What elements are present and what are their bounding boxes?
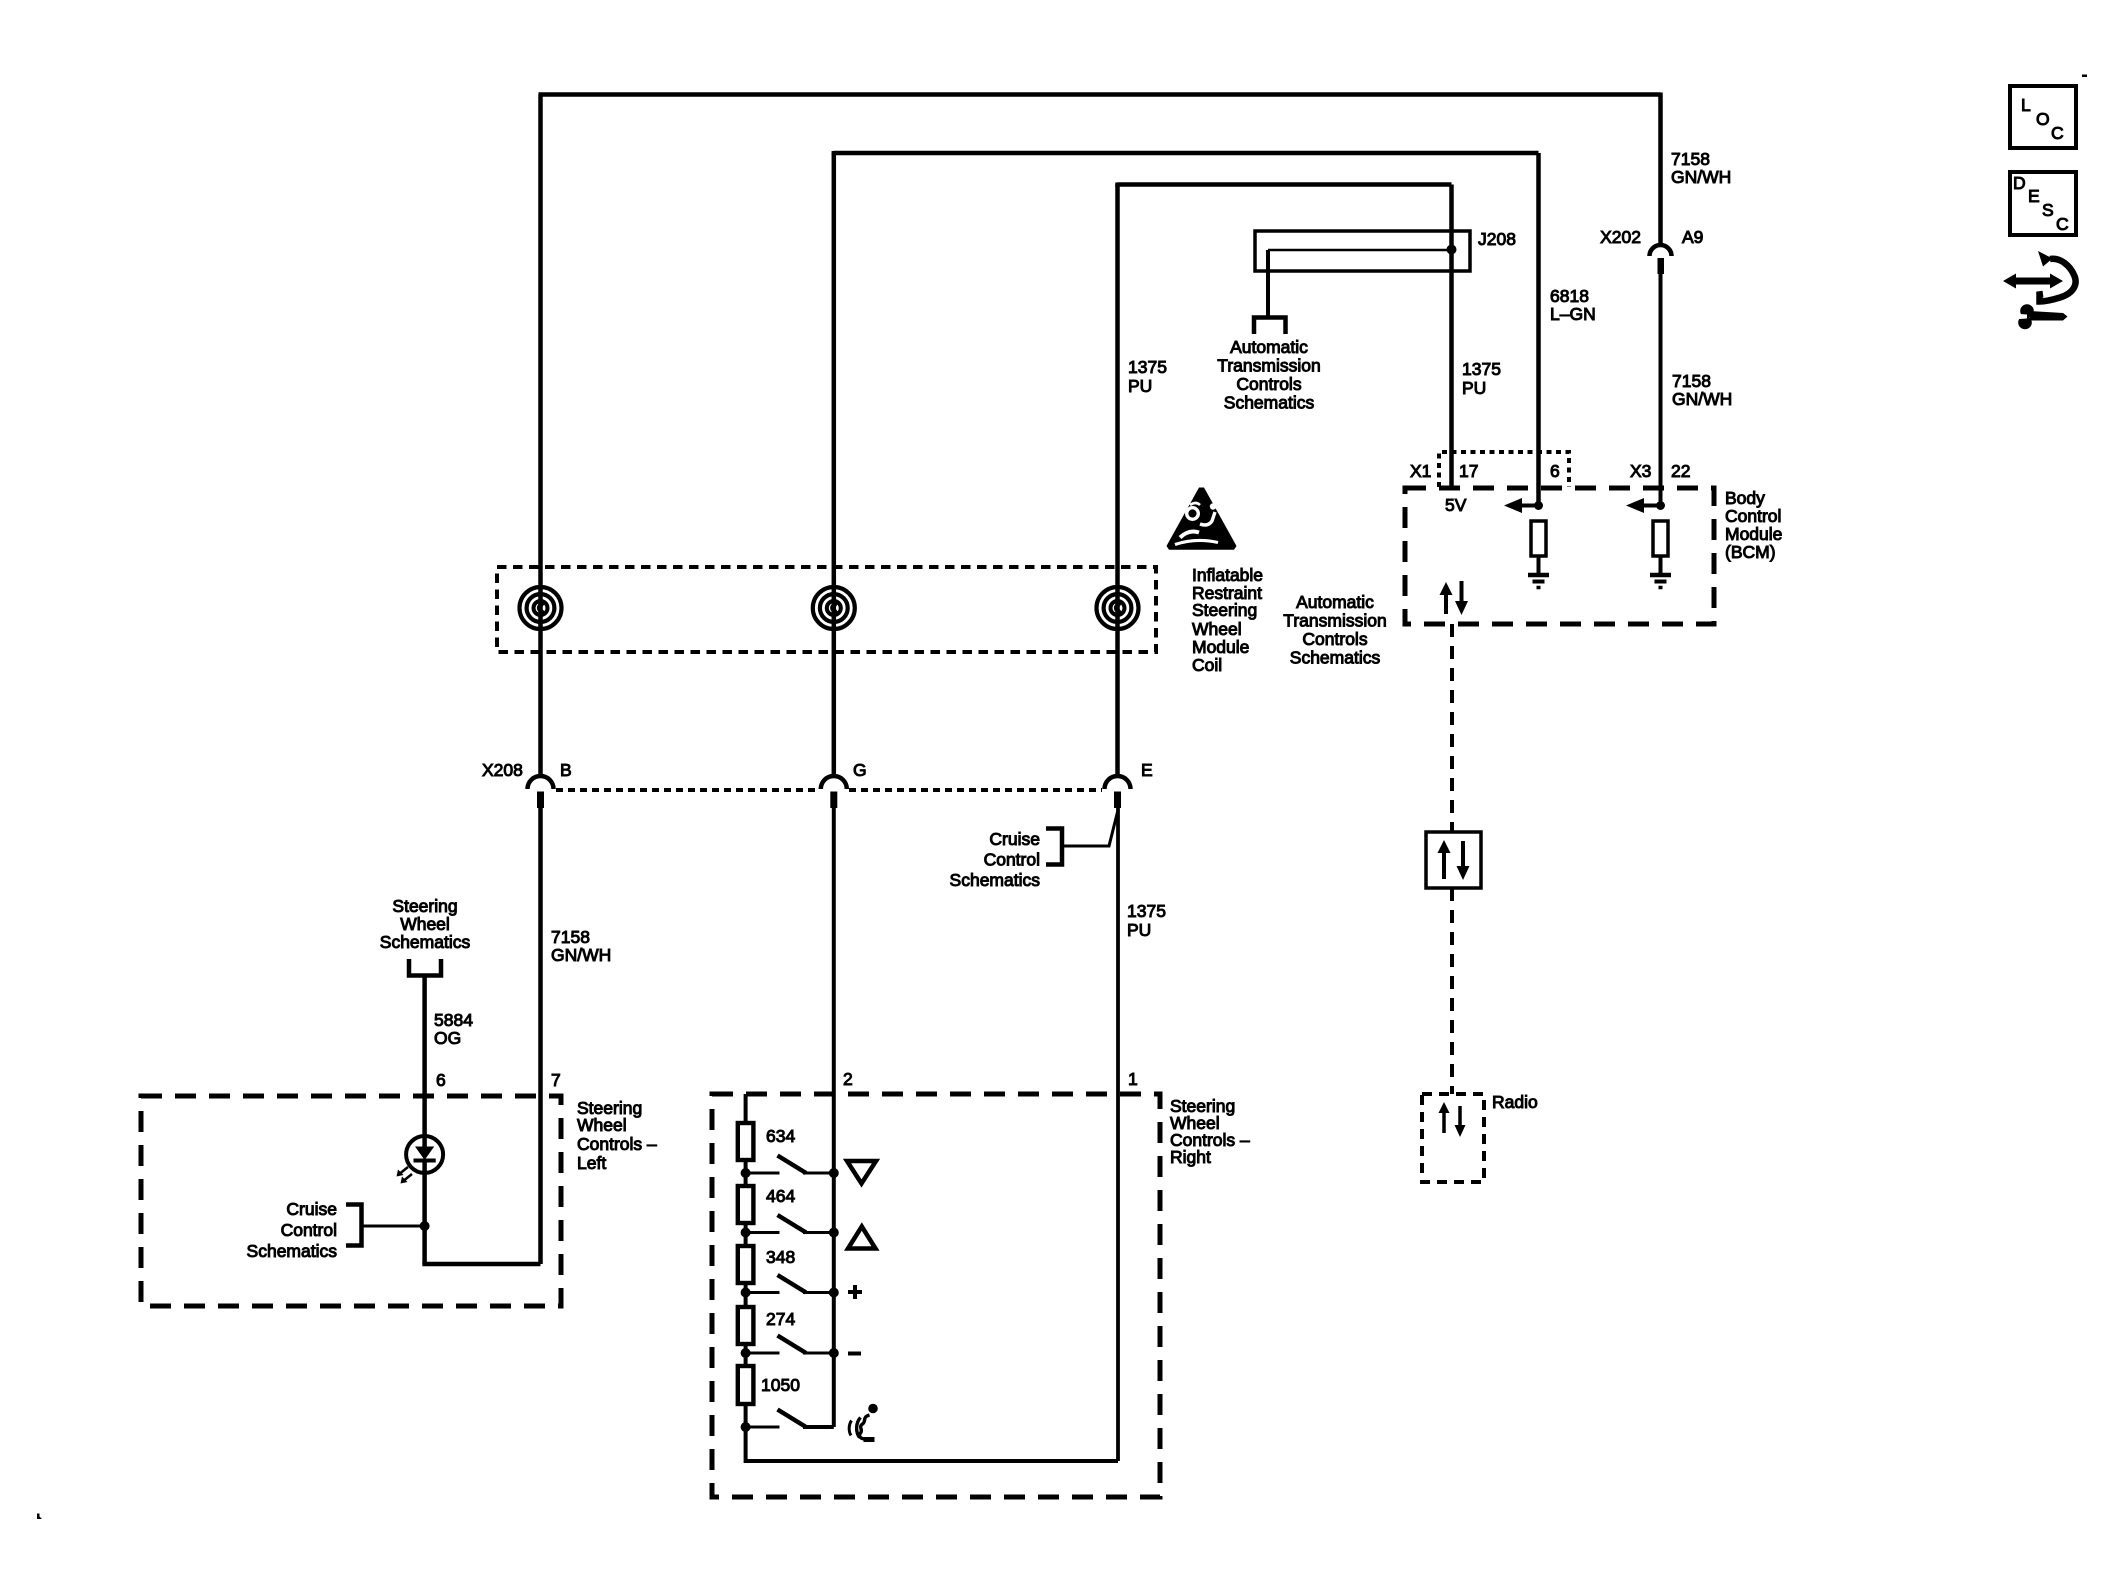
bracket Cruise Control (left) [346, 1205, 362, 1246]
svg-text:Control: Control [984, 850, 1040, 870]
wire E lower vertical to pin 1 [1116, 806, 1120, 1461]
switch S5 (voice) [746, 1426, 780, 1429]
svg-text:GN/WH: GN/WH [1671, 167, 1731, 187]
junction dot row1 right [829, 1168, 839, 1178]
wire B upper vertical (6818) [832, 153, 837, 778]
off-page connector bracket (Automatic Transmission) [1254, 318, 1286, 335]
svg-text:Schematics: Schematics [1224, 393, 1315, 413]
junction dot on J208 bus [1447, 245, 1457, 255]
wire W1 right vertical to X202 [1658, 93, 1663, 245]
module BCM dashed box [1405, 488, 1714, 624]
svg-text:L–GN: L–GN [1550, 304, 1596, 324]
svg-text:Wheel: Wheel [400, 914, 450, 934]
wire 5884 vertical [422, 976, 427, 1149]
svg-text:Schematics: Schematics [1290, 648, 1381, 668]
dotted harness line X208 (B to G) [556, 788, 818, 792]
svg-text:1375: 1375 [1128, 357, 1167, 377]
dotted harness line X208 (G to E) [849, 788, 1102, 792]
svg-text:X1: X1 [1410, 461, 1431, 481]
svg-text:Left: Left [577, 1153, 606, 1173]
serial data node box [1426, 832, 1481, 888]
svg-text:Controls: Controls [1302, 629, 1367, 649]
svg-text:Module: Module [1725, 524, 1782, 544]
junction dot pin 22 [1656, 501, 1665, 510]
wire W3 right vertical through J208 to BCM pin 17 [1449, 185, 1454, 489]
icon double arrow [2014, 278, 2052, 285]
connector X208 E arc [1105, 776, 1131, 789]
svg-text:L: L [2021, 95, 2031, 115]
svg-text:2: 2 [843, 1069, 853, 1089]
junction dot row4 right [829, 1348, 839, 1358]
junction dot pin 6 [1534, 501, 1543, 510]
svg-text:Schematics: Schematics [380, 932, 471, 952]
svg-text:348: 348 [766, 1247, 795, 1267]
stray mark bottom left [37, 1514, 42, 1520]
svg-text:Schematics: Schematics [247, 1241, 338, 1261]
symbol plus [853, 1285, 857, 1299]
LED D1 circle [406, 1136, 443, 1173]
wire A upper vertical (7158) [538, 95, 543, 779]
svg-text:PU: PU [1127, 920, 1151, 940]
connector X208 B tick [537, 792, 544, 809]
coil spiral 2 [813, 587, 855, 629]
signal arrow at pin 22 [1643, 504, 1661, 508]
svg-text:Automatic: Automatic [1296, 592, 1374, 612]
svg-text:(BCM): (BCM) [1725, 542, 1776, 562]
icon pointer outline [2040, 259, 2076, 302]
svg-text:17: 17 [1459, 461, 1478, 481]
icon wrench [2030, 311, 2068, 321]
svg-text:5884: 5884 [434, 1010, 473, 1030]
svg-text:7158: 7158 [1671, 149, 1710, 169]
resistor R5 1050 [738, 1366, 754, 1404]
resistor R2 464 [738, 1186, 754, 1223]
switch S3 (plus) [746, 1291, 780, 1294]
connector X208 G tick [830, 792, 837, 809]
svg-text:Controls –: Controls – [577, 1134, 657, 1154]
svg-text:J208: J208 [1478, 229, 1516, 249]
svg-text:Wheel: Wheel [1192, 619, 1242, 639]
module Radio dashed box [1422, 1094, 1484, 1182]
dashed serial data wire to radio [1450, 888, 1454, 1094]
wire R3-R4 [744, 1283, 748, 1307]
svg-text:X3: X3 [1630, 461, 1651, 481]
connector X202 A9 pin tick [1658, 258, 1665, 274]
svg-text:1375: 1375 [1462, 359, 1501, 379]
svg-text:C: C [2056, 214, 2069, 234]
svg-text:Right: Right [1170, 1147, 1211, 1167]
svg-text:Automatic: Automatic [1230, 337, 1308, 357]
resistor R1 634 [738, 1123, 754, 1160]
svg-text:Coil: Coil [1192, 655, 1222, 675]
svg-text:Body: Body [1725, 488, 1765, 508]
resistor R3 348 [738, 1246, 754, 1283]
svg-text:Cruise: Cruise [989, 829, 1040, 849]
svg-text:Transmission: Transmission [1217, 356, 1320, 376]
module coil dashed box [497, 567, 1156, 652]
connector X208 E tick [1114, 792, 1121, 809]
svg-text:Radio: Radio [1492, 1092, 1538, 1112]
svg-text:5V: 5V [1445, 495, 1467, 515]
svg-text:OG: OG [434, 1028, 461, 1048]
LED D1 diode triangle [415, 1147, 434, 1161]
wire W3 horizontal 1375 [1118, 183, 1452, 185]
svg-text:1: 1 [1128, 1069, 1138, 1089]
svg-text:7158: 7158 [1672, 371, 1711, 391]
icon LOC box [2010, 86, 2076, 148]
splice J208 bus bar [1268, 249, 1452, 252]
svg-text:Cruise: Cruise [286, 1199, 337, 1219]
wire W2 horizontal 6818 [834, 151, 1539, 153]
wire cruise tap to wire E [1062, 812, 1118, 846]
svg-text:Module: Module [1192, 637, 1249, 657]
wire resistor chain top stub [744, 1094, 748, 1123]
wire LED to junction [422, 1161, 427, 1265]
ground symbol (pin 22) [1650, 573, 1671, 578]
junction dot row2 left [741, 1228, 751, 1238]
wire bottom loop left box [425, 1262, 541, 1264]
svg-text:E: E [1141, 760, 1153, 780]
stray mark top right [2082, 75, 2087, 78]
junction dot row3 left [741, 1288, 751, 1298]
connector X1 dotted box [1439, 452, 1569, 487]
svg-text:PU: PU [1462, 378, 1486, 398]
wire A lower vertical to pin 7 [538, 808, 543, 1264]
svg-text:A9: A9 [1682, 227, 1703, 247]
splice J208 box [1255, 231, 1470, 271]
switch S4 (minus) [746, 1352, 780, 1355]
wire R5 to bottom corner [746, 1404, 1118, 1461]
arrows in serial data node [1442, 852, 1446, 879]
junction dot row3 right [829, 1288, 839, 1298]
svg-text:6: 6 [436, 1070, 446, 1090]
svg-text:Controls: Controls [1236, 374, 1301, 394]
wire W2 right vertical to BCM pin 6 [1536, 153, 1541, 506]
svg-text:Steering: Steering [1192, 600, 1257, 620]
junction dot row4 left [741, 1348, 751, 1358]
svg-text:274: 274 [766, 1309, 795, 1329]
junction dot row2 right [829, 1228, 839, 1238]
module Steering Wheel Controls Right dashed box [712, 1094, 1160, 1497]
wire resistor to ground (pin 6) [1537, 556, 1541, 573]
module Steering Wheel Controls Left dashed box [141, 1096, 561, 1306]
serial data arrows in BCM [1444, 594, 1448, 614]
symbol down triangle [847, 1161, 876, 1184]
symbol minus [848, 1352, 861, 1356]
svg-text:GN/WH: GN/WH [551, 945, 611, 965]
svg-text:6818: 6818 [1550, 286, 1589, 306]
svg-text:6: 6 [1550, 461, 1560, 481]
wire C upper vertical (1375) [1115, 185, 1120, 779]
svg-text:S: S [2042, 200, 2054, 220]
junction dot cruise tap [420, 1221, 430, 1231]
wire from J208 bus down [1266, 250, 1270, 316]
symbol voice [868, 1404, 878, 1414]
svg-text:E: E [2028, 186, 2040, 206]
svg-text:22: 22 [1671, 461, 1690, 481]
LED D1 cathode bar [414, 1159, 436, 1163]
resistor R4 274 [738, 1307, 754, 1344]
junction dot row5 left [741, 1422, 751, 1432]
airbag warning symbol [1167, 488, 1237, 550]
signal arrow at pin 6 [1521, 504, 1539, 508]
wire R1-R2 [744, 1160, 748, 1186]
switch S1 (cancel) [746, 1172, 780, 1175]
svg-text:D: D [2013, 173, 2026, 193]
svg-text:1050: 1050 [761, 1375, 800, 1395]
wire cruise tap horizontal [362, 1225, 425, 1228]
svg-text:7: 7 [551, 1070, 561, 1090]
wire resistor to ground (pin 22) [1659, 556, 1663, 573]
svg-text:G: G [853, 760, 867, 780]
LED D1 light arrows [398, 1167, 408, 1175]
svg-text:Inflatable: Inflatable [1192, 565, 1263, 585]
connector X202 A9 arc [1650, 245, 1672, 256]
svg-text:PU: PU [1128, 376, 1152, 396]
bracket Cruise Control (near E) [1046, 829, 1062, 865]
wire R2-R3 [744, 1223, 748, 1246]
svg-text:X202: X202 [1600, 227, 1641, 247]
svg-text:GN/WH: GN/WH [1672, 389, 1732, 409]
dashed serial data wire BCM to comparator [1450, 624, 1454, 832]
junction dot row1 left [741, 1168, 751, 1178]
off-page connector bracket (Steering Wheel Schematics) [409, 959, 441, 976]
connector X208 G arc [821, 776, 847, 789]
svg-text:Steering: Steering [392, 896, 457, 916]
resistor in BCM (pin 22) [1653, 521, 1668, 556]
svg-text:C: C [2051, 123, 2064, 143]
svg-text:Control: Control [1725, 506, 1781, 526]
wire B to pin 2 and switch common [832, 808, 836, 1427]
wire 7158 below X202 [1659, 273, 1663, 506]
svg-text:464: 464 [766, 1186, 795, 1206]
svg-text:Transmission: Transmission [1283, 611, 1386, 631]
connector X208 B arc [528, 776, 554, 789]
svg-text:7158: 7158 [551, 927, 590, 947]
svg-text:Control: Control [281, 1220, 337, 1240]
svg-text:O: O [2036, 109, 2050, 129]
wire R4-R5 [744, 1344, 748, 1366]
wire W1 top horizontal 7158 [539, 92, 1661, 97]
arrows in radio [1442, 1112, 1446, 1133]
resistor in BCM (pin 6) [1531, 521, 1546, 556]
svg-text:Wheel: Wheel [577, 1115, 627, 1135]
icon DESC box [2010, 172, 2076, 235]
svg-text:X208: X208 [482, 760, 523, 780]
svg-text:B: B [560, 760, 572, 780]
ground symbol (pin 6) [1528, 573, 1549, 578]
svg-text:634: 634 [766, 1126, 795, 1146]
svg-text:Schematics: Schematics [950, 870, 1041, 890]
coil spiral 3 [1097, 587, 1139, 629]
switch S2 (resume) [746, 1231, 780, 1234]
coil spiral 1 [520, 587, 562, 629]
svg-text:1375: 1375 [1127, 901, 1166, 921]
symbol up triangle [848, 1227, 876, 1249]
